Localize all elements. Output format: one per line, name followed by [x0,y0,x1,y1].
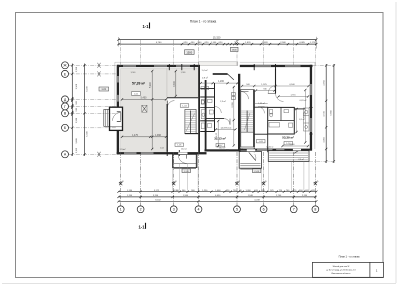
kitchen counter right wall [304,108,310,131]
annex step ledge [110,126,123,128]
svg-text:1500: 1500 [186,50,192,54]
svg-text:1-1: 1-1 [138,224,145,229]
kitchen sink circle [305,110,308,113]
svg-text:4,760: 4,760 [156,42,162,44]
svg-text:1,190: 1,190 [127,195,133,197]
dim vline right room [304,90,306,144]
svg-text:1,996: 1,996 [155,135,161,137]
bath fixture [201,110,205,119]
svg-text:13,02 м²: 13,02 м² [266,146,274,149]
vestibule partition right [254,106,268,108]
annex body walls [110,107,123,130]
svg-text:1-09: 1-09 [259,141,264,143]
door gap right porch [293,149,301,151]
section mark arrow top [149,23,151,29]
svg-text:1,140: 1,140 [211,42,217,44]
svg-text:1,145: 1,145 [76,147,78,153]
stair2 treads [241,110,253,112]
stair2 well outline [241,90,254,148]
right chain detail [325,64,327,163]
svg-text:1: 1 [120,208,122,212]
svg-text:1,980: 1,980 [181,72,186,74]
dim line room horizontal 2 [122,136,167,138]
svg-text:5,150: 5,150 [289,144,295,146]
wc2 fixture [201,123,204,129]
room tag box corridor [180,104,189,107]
svg-text:1-01: 1-01 [101,88,106,91]
top chain segments line+ticks [119,43,317,45]
left chain overall [84,64,86,157]
room tag box right [284,142,293,145]
stair1 south wall [185,133,198,135]
dim hline right mid [255,103,268,105]
dim hline right row2 [256,90,276,92]
bath block partition [268,120,295,122]
eaves line above top wall left [121,61,199,63]
svg-text:2,700: 2,700 [276,195,282,197]
axis circles 1-8 [117,206,124,213]
extension lines porch to chain [172,168,174,191]
svg-text:4,9 м²: 4,9 м² [298,158,304,161]
junction ticks top wall right [253,64,255,70]
partition center room north [207,118,225,120]
svg-text:1-04: 1-04 [182,106,187,108]
svg-text:1,716: 1,716 [290,95,296,97]
svg-text:9,580: 9,580 [331,110,333,116]
dim hline center row [216,128,237,130]
svg-text:1,620: 1,620 [262,42,268,44]
svg-text:1,940: 1,940 [248,195,254,197]
svg-text:53,39 м²: 53,39 м² [282,135,294,139]
eaves vertical left [114,62,116,107]
kitchen hob circle [305,126,308,129]
svg-text:8,442: 8,442 [155,199,161,201]
left chain detail [71,64,73,157]
entrance ramp diagonal [228,74,234,80]
svg-text:3,050: 3,050 [323,137,325,143]
partition hall west wall [166,104,168,152]
dim line vestibule [201,82,238,84]
eaves vertical right [314,62,316,149]
fixture right wm [289,123,293,127]
eaves line above top wall right [240,61,313,63]
svg-text:0,9 м²: 0,9 м² [202,77,208,80]
canopy outline middle entrance [198,62,237,66]
right chain overall [333,64,335,163]
stair2 door arc [241,92,249,100]
dim ticks room h1 [121,98,123,100]
svg-text:3,196: 3,196 [153,195,159,197]
svg-text:15,0 м²: 15,0 м² [181,148,188,151]
wet wall east [214,83,216,132]
exterior top wall right block [240,65,313,67]
junction ticks top wall [168,64,170,70]
svg-text:План 1 - го этажа: План 1 - го этажа [339,254,360,258]
stair1 treads [185,110,196,112]
svg-text:5: 5 [236,208,238,212]
fixture right bath [269,123,280,128]
recessed wall middle entrance [213,73,228,75]
svg-text:4: 4 [198,208,200,212]
titleblock divider [369,262,371,277]
party wall 1 west leaf [198,65,200,154]
junction ticks bottom right [253,147,255,152]
svg-text:План 1 - го этажа: План 1 - го этажа [190,20,217,24]
partition below upper arm [167,97,198,99]
door arc center room [224,119,230,125]
svg-text:1,090: 1,090 [245,190,251,192]
exterior top wall left block [117,65,198,67]
bottom chain C [119,200,317,202]
svg-text:6: 6 [263,208,265,212]
porch right outline [268,151,309,162]
eaves connect left [115,61,121,63]
corridor wall right apt [254,133,268,135]
stair2 center rail [246,111,248,133]
svg-text:1-01: 1-01 [134,94,139,96]
door cross room [142,105,147,112]
svg-text:3,730: 3,730 [323,111,325,117]
svg-text:3,480: 3,480 [76,138,78,144]
svg-text:7: 7 [293,208,295,212]
svg-text:3: 3 [173,208,175,212]
tag box below porch left [182,169,191,173]
dim vline center small [217,120,219,147]
svg-text:4,248: 4,248 [254,199,260,201]
room fill left apartment upper arm [167,69,198,98]
svg-text:2,5 м²: 2,5 м² [220,100,226,103]
porch left steps [174,163,197,165]
exterior bottom wall left block [117,152,207,154]
svg-text:4,960: 4,960 [323,80,325,86]
svg-text:4,085: 4,085 [299,42,305,44]
svg-text:1,466: 1,466 [215,190,221,192]
door gap center porch [247,149,255,151]
svg-text:1,130: 1,130 [127,190,133,192]
stair2 arrow [245,113,251,130]
party wall 1 east leaf [205,80,207,151]
top chain ext lines [118,37,120,47]
boxed label 1500 a [185,50,195,55]
right wall junction stubs [309,106,312,108]
svg-text:17,0м²: 17,0м² [120,148,126,151]
svg-text:1,900: 1,900 [76,117,78,123]
svg-text:57,39 м²: 57,39 м² [132,81,146,85]
svg-text:1,250: 1,250 [202,190,208,192]
titleblock box [312,262,383,277]
room tag box corridor right [257,140,266,143]
svg-text:1500: 1500 [232,50,238,52]
svg-text:13,8 м²: 13,8 м² [239,148,246,151]
door arc right 3 [258,107,265,114]
svg-text:5,400: 5,400 [141,97,147,99]
bath block right outline [268,107,295,134]
svg-text:5,990: 5,990 [150,81,152,87]
bottom chain A [119,191,317,193]
dim line room vertical 2 [175,71,177,97]
svg-text:3,300: 3,300 [232,101,234,107]
dim ticks room v2 [175,70,177,72]
svg-text:2: 2 [140,208,142,212]
wet wall south [200,120,214,122]
kitchen partition right [294,108,305,110]
exterior bottom wall center block [205,149,241,151]
page edge shadow right [395,2,397,283]
eaves connect right [313,61,315,63]
svg-text:1-1: 1-1 [142,24,149,29]
room tag box hall [175,143,184,146]
axis grid horizontal dash-dot lines [69,64,117,66]
dim hline right row3 [278,96,309,98]
top chain overall line [119,39,317,41]
svg-text:8,1 м²: 8,1 м² [299,118,305,121]
wet wall mid [200,107,214,109]
top chain overall ticks [117,38,119,40]
svg-text:1-05: 1-05 [177,145,182,147]
door arc right 1 [268,86,276,94]
fixture right sink [284,110,289,113]
svg-text:С-09: С-09 [254,171,260,173]
svg-text:1,200: 1,200 [218,81,224,83]
svg-text:С-08: С-08 [184,171,190,173]
dim ticks room v1 [151,98,153,100]
room tag box left room [132,92,141,96]
svg-text:15,320: 15,320 [213,37,221,40]
bottom chain B [119,196,317,198]
annex steps [104,110,110,127]
dim vline center room [233,86,235,146]
svg-text:д. № 5, Город, ул. В.Ленина, 1: д. № 5, Город, ул. В.Ленина, 13 [326,269,356,272]
tiny fixtures shaft [201,87,204,90]
wet wall south2 [200,131,214,133]
svg-text:1,960: 1,960 [183,195,189,197]
porch right door leaf [294,149,301,153]
boxed label 1500 b [231,47,239,51]
axis end cross left [98,63,101,68]
right chain connector top [313,65,336,67]
annex door opening jambs [117,111,121,113]
tag box west [99,87,109,91]
partition right north-south [275,69,277,94]
svg-text:1,620: 1,620 [245,42,251,44]
section mark arrow bottom [145,223,147,229]
junction ticks bottom wall [166,150,168,156]
dim line right top [242,85,310,87]
dim hline right row4 [282,145,309,147]
corridor wall vert right apt [267,134,269,148]
svg-text:3,340: 3,340 [76,83,78,89]
fixture right toilet [270,110,273,114]
svg-text:(2),098 (1,0): (2),098 (1,0) [221,128,232,130]
door arc hall [167,101,174,108]
svg-text:3,172: 3,172 [154,190,160,192]
svg-text:1,380: 1,380 [174,190,180,192]
svg-text:0,81 м²: 0,81 м² [300,99,307,102]
elevation cross top axis5 [235,42,238,45]
svg-text:8: 8 [314,208,316,212]
duct boxes center [232,93,236,96]
wm fixture [209,110,213,114]
svg-text:2,940: 2,940 [280,42,286,44]
svg-text:13,0 м²: 13,0 м² [219,146,226,149]
svg-text:1,130: 1,130 [76,66,78,72]
porch left outline [173,154,198,167]
exterior right wall [310,65,312,149]
room tag box center [216,144,225,147]
porch left door gap [178,152,187,154]
door arc wet [215,107,222,114]
svg-text:5,330: 5,330 [87,130,89,136]
stair2 landing line [241,131,254,133]
porch center steps [240,163,260,165]
dim line room horizontal 1 [122,98,167,100]
axis grid vertical dash-dot lines [120,40,122,66]
toilet fixture [201,100,204,105]
svg-text:Жилой дом тип Ж: Жилой дом тип Ж [333,265,350,268]
svg-text:1,170: 1,170 [310,42,316,44]
room fill left apartment lower [121,69,168,154]
svg-text:3,300: 3,300 [174,80,176,86]
sink fixture [208,99,213,102]
svg-text:Ивановская область: Ивановская область [332,273,351,275]
svg-text:4,050: 4,050 [215,195,221,197]
right chain connector bottom [309,160,335,162]
porch left side rails [172,154,174,167]
stair1 well outline [185,110,196,134]
tag box below porch center [252,169,261,173]
svg-text:1,475: 1,475 [132,135,138,137]
svg-text:2,130: 2,130 [302,195,308,197]
svg-text:1,525: 1,525 [261,84,267,86]
vestibule floor wall [200,88,214,90]
stair1 arrow [186,114,194,132]
svg-text:1,4 м²: 1,4 м² [202,69,208,72]
svg-text:Г: Г [64,105,66,109]
stair2 east wall [253,90,255,148]
dim line room vertical 1 [151,71,153,150]
svg-text:6,230: 6,230 [87,85,89,91]
party wall 2 [238,74,240,152]
svg-text:3,940: 3,940 [131,72,136,74]
annex door arc [113,113,121,121]
door arc right 2 [276,94,284,102]
svg-text:1,02: 1,02 [160,147,164,149]
dim ticks room h2 [121,136,123,138]
exterior left wall [117,65,119,155]
exterior bottom wall right block [239,149,313,151]
porch left door arc [178,155,186,163]
svg-text:4,540: 4,540 [289,84,295,86]
stair1 center rail [190,111,192,134]
wet wall north [200,96,214,98]
porch center door leaf [249,152,256,160]
dim vline right small [296,108,298,133]
porch center outline [239,152,261,169]
porch right deck lines [269,152,308,154]
axis circles letters [62,62,69,69]
page edge shadow bottom [2,283,396,285]
